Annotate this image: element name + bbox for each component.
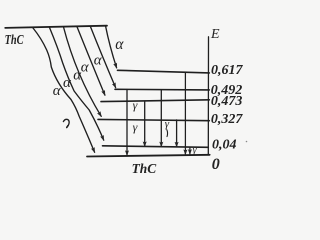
small hook glyph left of A6 xyxy=(63,119,69,127)
svg-text:0,327: 0,327 xyxy=(211,112,244,127)
svg-text:α: α xyxy=(94,53,103,69)
hook glyph tail blob xyxy=(66,125,68,128)
svg-text:α: α xyxy=(53,83,62,99)
svg-text:γ: γ xyxy=(133,120,138,134)
level 0.327 xyxy=(98,119,209,120)
svg-text:ThC: ThC xyxy=(132,162,157,176)
svg-text:α: α xyxy=(63,75,72,91)
svg-text:γ: γ xyxy=(165,118,170,130)
alpha arrow A3 (to 0.473) xyxy=(77,27,105,95)
ground level 0 xyxy=(87,155,210,157)
alpha arrow A6 (to ground) xyxy=(33,28,95,152)
alpha arrow A4 (to 0.327) xyxy=(64,27,102,116)
svg-text:α: α xyxy=(115,36,124,53)
svg-text:E: E xyxy=(210,27,220,42)
svg-text:0,473: 0,473 xyxy=(211,94,243,109)
gamma V5: 0.473 -> 0.04 xyxy=(144,101,146,146)
svg-text:0: 0 xyxy=(212,156,220,173)
svg-text:α: α xyxy=(81,60,90,76)
E axis xyxy=(205,37,210,155)
level 0.473 xyxy=(101,100,209,102)
gamma V6: 0.492 -> 0.04 xyxy=(160,90,162,147)
alpha arrow A1 (to 0.617) xyxy=(106,26,117,68)
faint printing dot xyxy=(246,141,248,143)
alpha arrow A5 (to 0.04) xyxy=(50,28,104,141)
level 0.04 xyxy=(103,146,209,148)
svg-text:ThC: ThC xyxy=(5,33,24,48)
gamma3 tail stroke xyxy=(166,130,169,137)
gamma V7: 0.327 -> 0.04 xyxy=(176,120,178,147)
svg-text:α: α xyxy=(73,68,82,84)
svg-text:0,04: 0,04 xyxy=(212,138,237,153)
level 0.492 xyxy=(115,88,209,91)
gamma V4: 0.617 -> ground xyxy=(184,72,186,154)
alpha arrow A2 (to 0.492) xyxy=(90,26,115,87)
tiny gamma A8: 0.04 -> ground xyxy=(189,148,191,154)
level 0.617 xyxy=(118,70,210,73)
gamma V1: 0.492 -> ground xyxy=(126,90,128,156)
svg-text:γ: γ xyxy=(133,98,138,112)
svg-text:0,617: 0,617 xyxy=(211,63,244,78)
ThC parent level line xyxy=(5,26,107,28)
